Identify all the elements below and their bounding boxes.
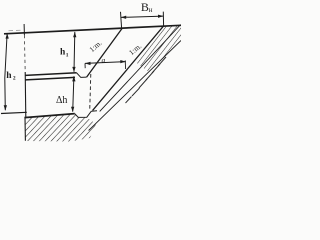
h2 bottom reference line [1, 112, 27, 113]
arrowhead h1 bottom [72, 67, 75, 72]
tick a left [84, 63, 86, 68]
svg-text:1: 1 [66, 53, 69, 59]
svg-text:Δh: Δh [56, 95, 67, 106]
svg-text:a: a [102, 55, 106, 64]
arrowhead Bн left [121, 16, 127, 19]
arrowhead h2 bottom [4, 105, 7, 110]
hidden edge dashed vertical [90, 74, 91, 111]
hatching band sparse strokes [126, 57, 167, 103]
bench upper line [26, 73, 77, 76]
dimension h1 / delta-h vertical line [73, 32, 76, 72]
bench notch [77, 73, 87, 78]
natural slope line B [100, 25, 181, 112]
svg-text:h: h [6, 71, 12, 81]
dimension a line [85, 62, 126, 64]
arrowhead a right [120, 60, 126, 63]
trench bottom line [24, 114, 74, 118]
hatching bottom soil block [25, 114, 96, 142]
arrowhead delta-h top [72, 76, 75, 81]
natural slope line C [89, 41, 181, 131]
speck marks above ground line [9, 30, 14, 32]
arrowhead delta-h bottom [71, 107, 74, 112]
svg-text:н: н [149, 6, 153, 14]
slope line 1:m left [87, 28, 123, 77]
hatching right slope corner [134, 25, 181, 72]
ground line [4, 25, 181, 34]
arrowhead h1 top [73, 32, 76, 37]
svg-text:2: 2 [13, 75, 16, 81]
soil block left edge [24, 118, 26, 141]
dimension h2 vertical line [5, 34, 7, 111]
slope line 1:m right [93, 26, 164, 110]
arrowhead Bн right [158, 15, 164, 18]
arrowhead h2 top [6, 33, 9, 38]
dimension Bн line [121, 12, 164, 29]
axis / trench left wall vertical [23, 24, 25, 35]
tick a right [124, 60, 126, 69]
arrowhead a left [85, 62, 91, 65]
bench lower line [26, 77, 76, 80]
svg-text:В: В [141, 0, 149, 14]
bottom notch [75, 111, 97, 118]
